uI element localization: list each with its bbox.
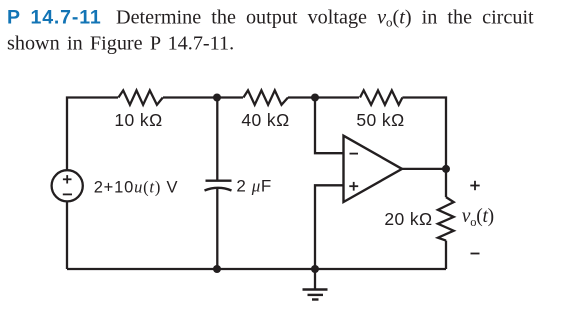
op-amp minus sign bbox=[350, 153, 359, 155]
source plus sign bbox=[63, 178, 72, 180]
wire top between 10k and 40k bbox=[163, 96, 243, 98]
capacitor stem top bbox=[216, 98, 218, 181]
svg-text:Determine the output voltage v: Determine the output voltage vo(t) in th… bbox=[116, 6, 534, 29]
capacitor stem bottom bbox=[216, 188, 218, 269]
svg-text:shown in Figure P 14.7-11.: shown in Figure P 14.7-11. bbox=[7, 33, 234, 55]
resistor R 50k zigzag bbox=[360, 90, 402, 104]
node dot output bbox=[442, 165, 450, 173]
wire right bottom bbox=[445, 241, 447, 269]
resistor R 10k zigzag bbox=[118, 90, 162, 104]
node dot top at capacitor bbox=[213, 94, 221, 102]
op-amp U1 triangle bbox=[344, 136, 403, 202]
svg-text:40 kΩ: 40 kΩ bbox=[241, 110, 289, 130]
resistor R 40k zigzag bbox=[243, 90, 288, 104]
ground bar 1 bbox=[303, 288, 328, 290]
voltage source circle bbox=[52, 170, 83, 201]
svg-text:10 kΩ: 10 kΩ bbox=[114, 110, 162, 130]
ground stem bbox=[314, 269, 316, 290]
source minus sign bbox=[63, 193, 72, 195]
capacitor top plate bbox=[206, 179, 232, 181]
svg-text:50 kΩ: 50 kΩ bbox=[356, 110, 404, 130]
node dot bottom at capacitor bbox=[213, 265, 221, 273]
wire bottom bbox=[67, 268, 446, 270]
resistor R 20k vertical zigzag bbox=[438, 197, 454, 241]
node dot top at feedback bbox=[311, 94, 319, 102]
svg-text:14.7-11: 14.7-11 bbox=[31, 6, 102, 28]
svg-text:2 μF: 2 μF bbox=[236, 177, 272, 196]
op-amp output wire bbox=[402, 168, 446, 170]
wire left below source bbox=[66, 201, 68, 269]
wire top-left segment bbox=[67, 98, 118, 171]
wire node to inverting input bbox=[315, 98, 344, 154]
ground bar 3 bbox=[312, 298, 319, 300]
op-amp plus sign bbox=[349, 185, 358, 187]
svg-text:2+10u(t) V: 2+10u(t) V bbox=[94, 177, 179, 196]
output minus sign bbox=[471, 253, 480, 255]
wire top between 40k and 50k bbox=[288, 96, 359, 98]
svg-text:P: P bbox=[7, 6, 20, 28]
node dot bottom at ground bbox=[311, 265, 319, 273]
svg-text:vo(t): vo(t) bbox=[462, 206, 494, 229]
ground bar 2 bbox=[308, 294, 324, 296]
capacitor bottom curved plate bbox=[205, 188, 232, 191]
wire noninverting input to ground rail bbox=[315, 185, 344, 269]
wire top-right corner down to output node bbox=[402, 98, 446, 198]
svg-text:20 kΩ: 20 kΩ bbox=[384, 209, 432, 229]
output plus sign bbox=[470, 185, 479, 187]
